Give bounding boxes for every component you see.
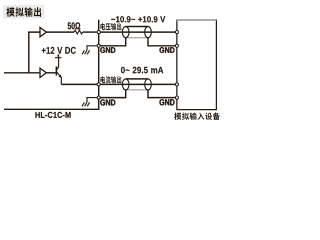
wire: voltage output line to analog input device bbox=[100, 31, 176, 33]
terminal node voltage gnd (left) bbox=[97, 44, 100, 47]
analog input device box bbox=[177, 20, 217, 110]
shielded cable (current): shield top line bbox=[126, 78, 148, 80]
label GND (right, voltage) bbox=[159, 47, 174, 53]
terminal node current in (right) bbox=[175, 83, 178, 86]
title label 模拟输出 (analog output) bbox=[3, 5, 45, 19]
label 电压输出 (voltage output) bbox=[100, 23, 121, 30]
label GND (left, voltage) bbox=[100, 47, 115, 53]
value label 50 ohm bbox=[68, 22, 81, 29]
wire: U2 output to Q1 base bbox=[46, 72, 55, 74]
chassis ground symbol (current side) bbox=[82, 98, 98, 107]
terminal node current out (left) bbox=[97, 83, 100, 86]
wire: ch1 corner from junction up to buffer U1 bbox=[29, 32, 40, 73]
resistor R1 50ohm zigzag bbox=[74, 30, 83, 34]
label GND (left, current) bbox=[100, 99, 115, 105]
label -10.9~ +10.9 V bbox=[111, 16, 165, 22]
wire: analog input from left edge to buffer U2 bbox=[4, 72, 40, 74]
wire: current shield right drop to GND terminal bbox=[148, 90, 176, 98]
transistor Q1 emitter with arrow bbox=[57, 72, 61, 84]
wire: voltage shield right drop to GND terminal bbox=[148, 38, 176, 46]
shielded cable (voltage): shield top line bbox=[126, 26, 148, 28]
shielded cable (voltage): right end ellipse bbox=[145, 26, 152, 37]
+12V DC supply symbol bbox=[55, 55, 62, 58]
transistor Q1 collector to +12V bbox=[57, 58, 59, 70]
shielded cable (current): left end ellipse bbox=[122, 79, 129, 90]
label 0~ 29.5 mA bbox=[121, 67, 163, 74]
terminal node voltage in (right) bbox=[175, 31, 178, 34]
transistor Q1 base bar bbox=[55, 66, 57, 75]
wire: U1 output to resistor R1 bbox=[46, 31, 74, 33]
label +12 V DC bbox=[42, 47, 76, 54]
shielded cable (voltage): left end ellipse bbox=[122, 26, 129, 37]
wire: voltage shield left drop to GND terminal bbox=[100, 38, 126, 46]
op-amp buffer U1 (voltage follower) bbox=[40, 27, 46, 36]
label GND (right, current) bbox=[159, 99, 174, 105]
shielded cable (voltage): shield bottom line bbox=[126, 37, 148, 39]
terminal node voltage gnd (right) bbox=[175, 44, 178, 47]
shielded cable (current): shield bottom line bbox=[126, 89, 148, 91]
chassis ground symbol (voltage side) bbox=[82, 46, 98, 55]
shielded cable (current): right end ellipse bbox=[145, 79, 152, 90]
op-amp buffer U2 (current driver) bbox=[40, 68, 46, 77]
wire: current output line to analog input device bbox=[100, 83, 176, 85]
label HL-C1C-M bbox=[35, 112, 70, 118]
wire: resistor to voltage output terminal bbox=[83, 31, 98, 33]
terminal node current gnd (right) bbox=[175, 96, 178, 99]
label 模拟输入设备 (analog input device) bbox=[174, 113, 220, 120]
wire: Q1 emitter to current output terminal bbox=[61, 83, 97, 85]
terminal node current gnd (left) bbox=[97, 96, 100, 99]
left device HL-C1C-M terminal border bbox=[4, 20, 99, 110]
wire: current shield left drop to GND terminal bbox=[100, 90, 126, 98]
label 电流输出 (current output) bbox=[100, 76, 121, 83]
terminal node voltage out (left) bbox=[97, 31, 100, 34]
